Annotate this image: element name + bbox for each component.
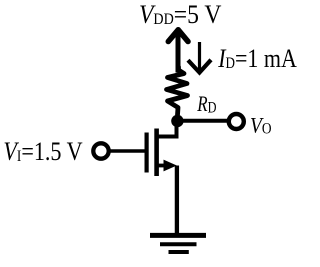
- output terminal VO (open circle): [229, 114, 244, 129]
- svg-text:VDD=5 V: VDD=5 V: [139, 1, 221, 29]
- wire: source lead: [157, 164, 170, 168]
- supply arrow (up): [168, 30, 188, 73]
- label RD: [196, 93, 216, 117]
- wire: input terminal to gate: [109, 149, 147, 153]
- transistor M1 gate bar: [145, 133, 149, 173]
- wire: node to output terminal: [177, 119, 227, 123]
- svg-text:VI=1.5 V: VI=1.5 V: [3, 137, 83, 166]
- label VDD = 5 V: [139, 1, 221, 29]
- source arrow (NMOS): [164, 160, 177, 172]
- label ID = 1 mA: [217, 45, 297, 73]
- label VO: [250, 112, 272, 138]
- transistor M1 channel bar: [154, 129, 159, 177]
- ground: [150, 235, 206, 252]
- wire: source to ground: [175, 166, 179, 234]
- wire: drain lead: [157, 117, 177, 137]
- resistor RD (zigzag): [167, 67, 188, 115]
- label VI = 1.5 V: [3, 137, 83, 166]
- node: drain junction dot: [171, 115, 183, 127]
- current arrow ID (down): [188, 42, 211, 73]
- input terminal VI (open circle): [93, 143, 108, 158]
